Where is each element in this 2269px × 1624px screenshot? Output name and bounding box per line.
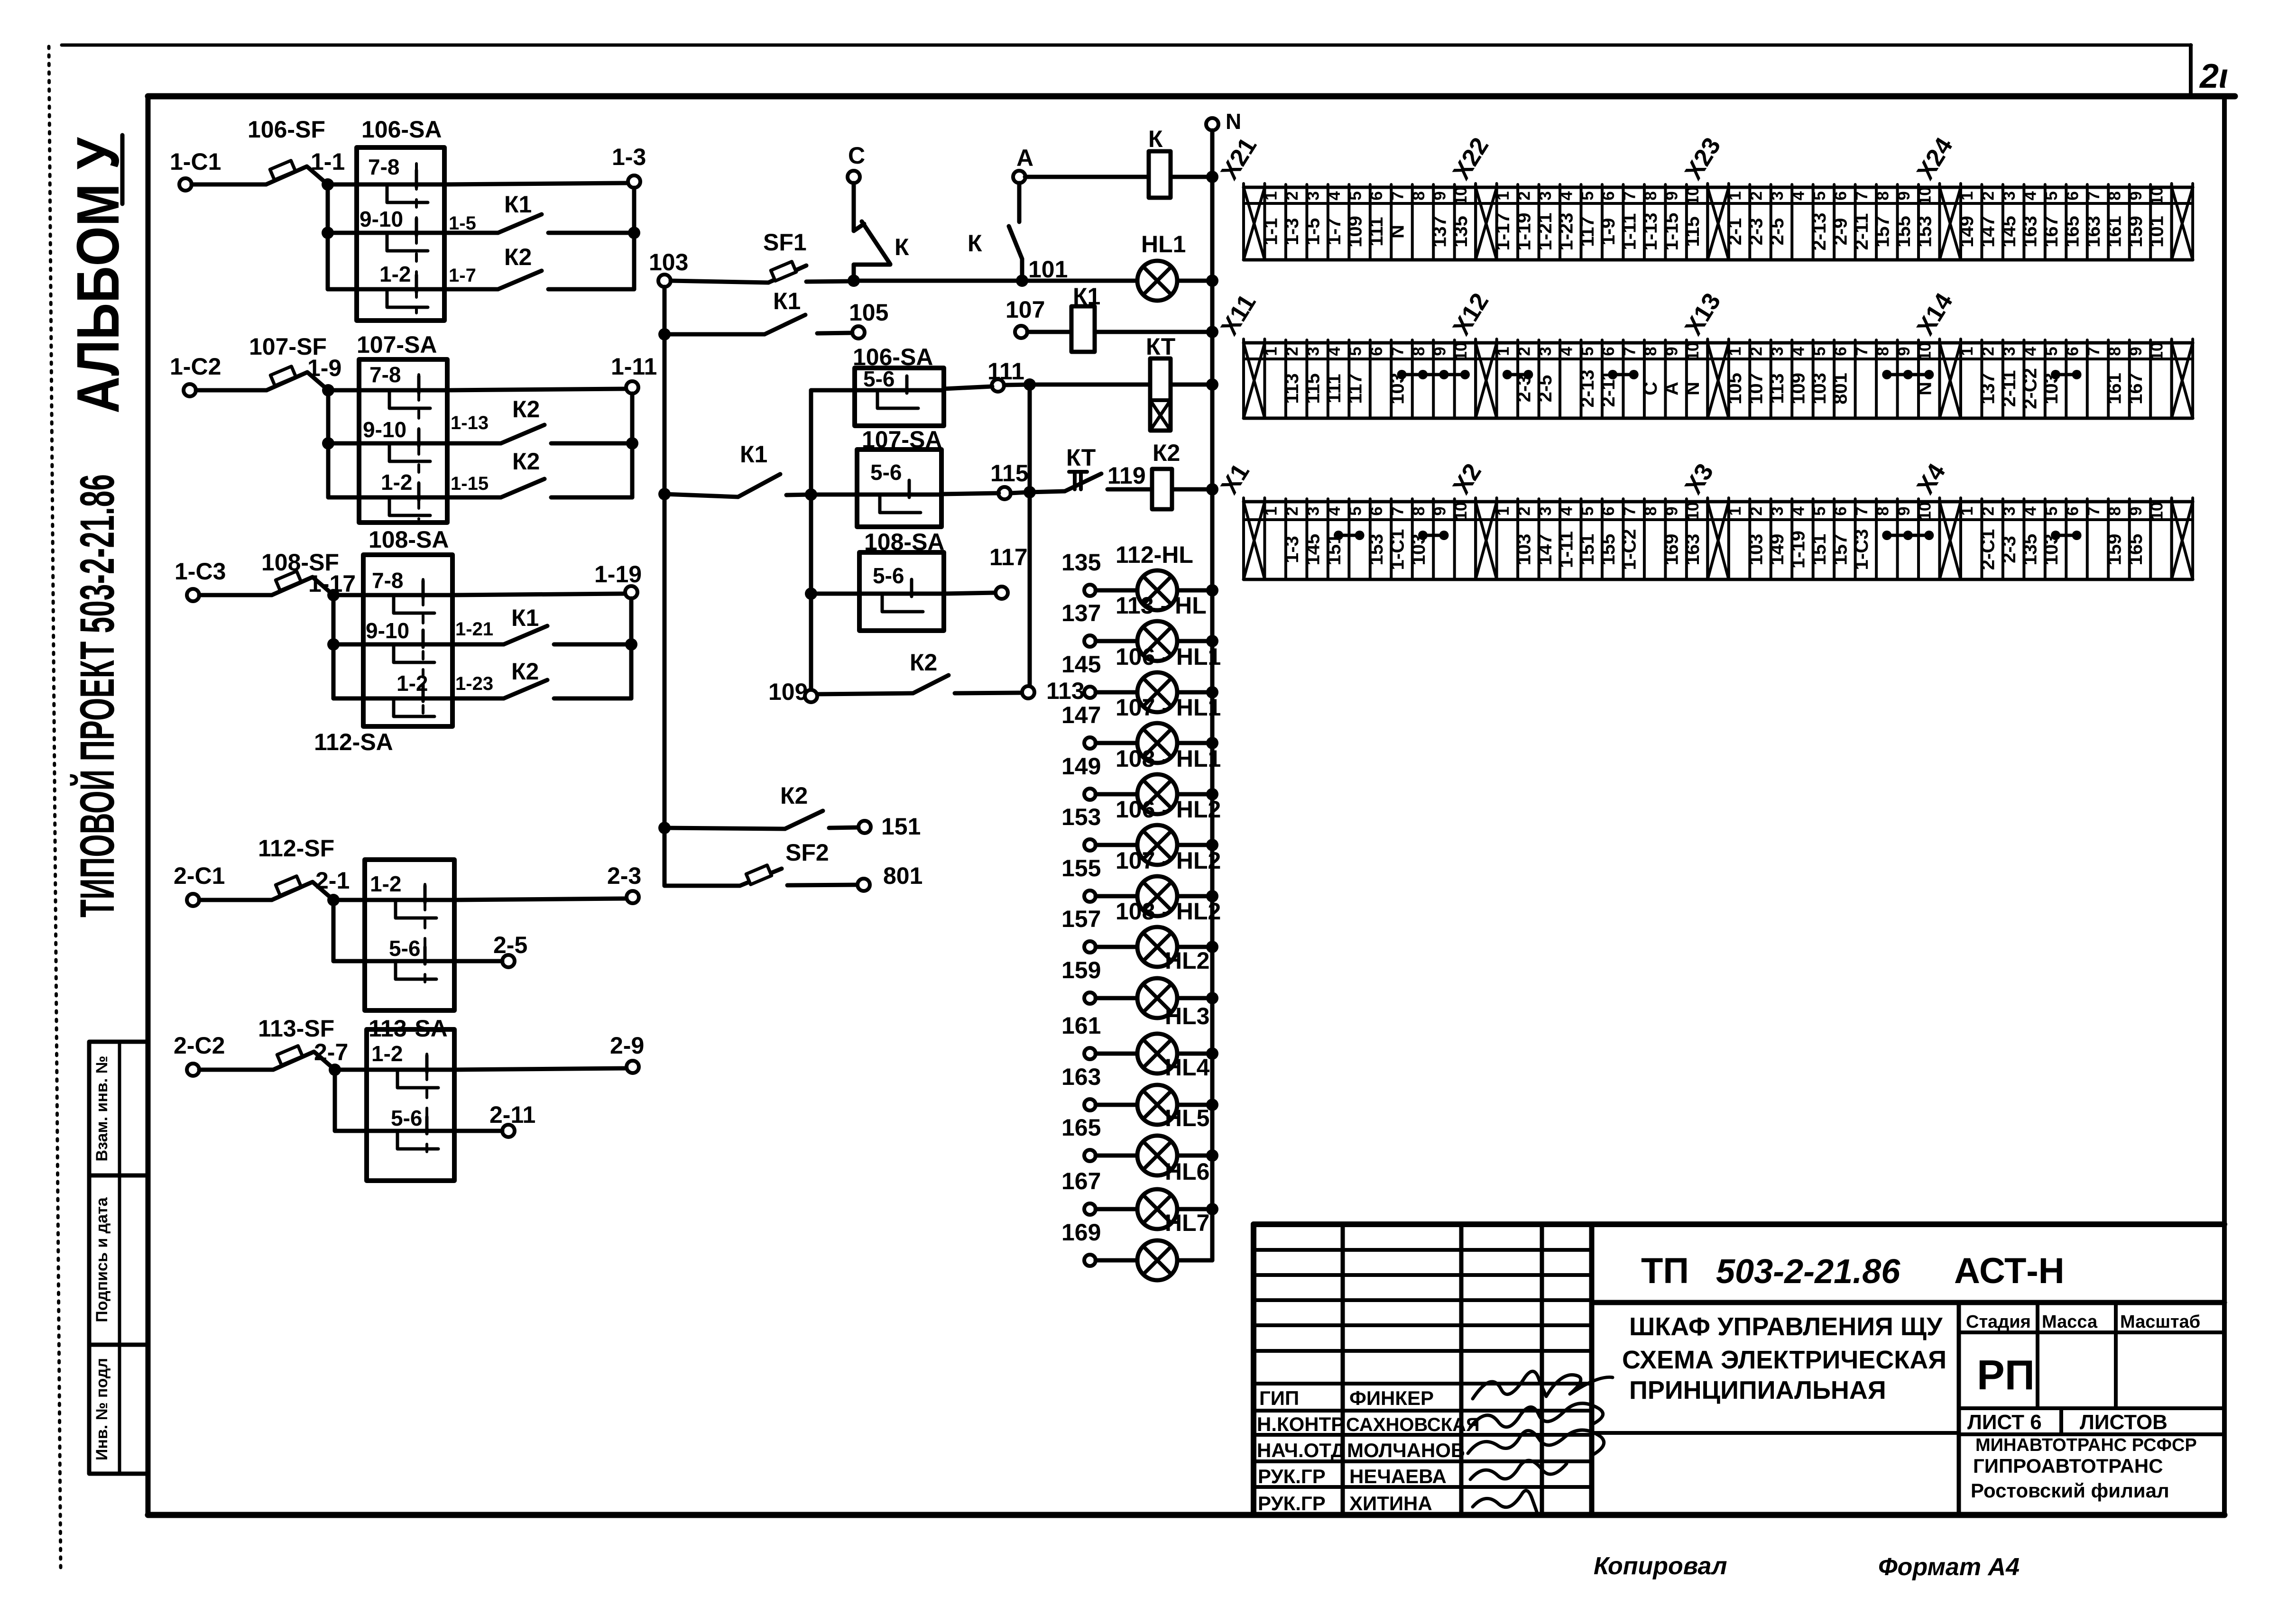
svg-text:Инв. № подл: Инв. № подл bbox=[93, 1358, 111, 1460]
terminal 153 bbox=[1084, 839, 1096, 851]
terminal 1-C3 bbox=[187, 589, 199, 601]
drawing frame bbox=[148, 93, 2235, 100]
lamp 107 - HL2 bbox=[1116, 847, 1221, 874]
svg-text:МОЛЧАНОВ: МОЛЧАНОВ bbox=[1347, 1439, 1465, 1461]
left bus of 113-SA bbox=[333, 1070, 337, 1131]
svg-text:155: 155 bbox=[1893, 216, 1914, 248]
Х1 pin 5 bbox=[1369, 499, 1372, 579]
Х22 pin 8 bbox=[1664, 184, 1667, 260]
svg-text:К2: К2 bbox=[511, 658, 539, 685]
svg-text:HL5: HL5 bbox=[1165, 1105, 1209, 1131]
svg-text:3: 3 bbox=[2000, 506, 2019, 515]
svg-text:167: 167 bbox=[1061, 1168, 1101, 1194]
Х21 pin 7 bbox=[1411, 184, 1414, 260]
svg-text:1-2: 1-2 bbox=[379, 262, 411, 286]
Х2 pin 8 bbox=[1664, 499, 1667, 579]
Х3 pin 2 bbox=[1770, 499, 1772, 579]
svg-text:5: 5 bbox=[1810, 506, 1829, 515]
svg-text:108 - HL1: 108 - HL1 bbox=[1116, 745, 1221, 772]
terminal 161 bbox=[1084, 1048, 1096, 1059]
svg-text:113 - HL: 113 - HL bbox=[1116, 592, 1207, 619]
svg-text:6: 6 bbox=[1367, 191, 1386, 200]
svg-text:7: 7 bbox=[2085, 347, 2103, 356]
wire 111 to KT branch bbox=[1004, 385, 1030, 385]
wire into 108-SA aux bbox=[811, 592, 859, 596]
terminal 115 bbox=[998, 487, 1011, 499]
svg-text:1: 1 bbox=[1958, 347, 1976, 356]
svg-text:Масштаб: Масштаб bbox=[2120, 1312, 2200, 1332]
svg-text:К1: К1 bbox=[504, 191, 532, 218]
wire lamp to N bus bbox=[1177, 1052, 1212, 1056]
svg-text:6: 6 bbox=[1367, 506, 1386, 515]
svg-text:1-11: 1-11 bbox=[1556, 531, 1577, 568]
Х23 pin 1 bbox=[1748, 184, 1751, 260]
svg-text:107: 107 bbox=[1746, 373, 1767, 404]
svg-text:111: 111 bbox=[1324, 374, 1345, 403]
svg-text:SF2: SF2 bbox=[785, 839, 829, 866]
Х14 pin 7 bbox=[2107, 340, 2110, 418]
svg-text:2-9: 2-9 bbox=[1830, 218, 1851, 246]
svg-text:4: 4 bbox=[1557, 191, 1576, 201]
stage value РП bbox=[1977, 1351, 2035, 1398]
Х1 pin 2 bbox=[1305, 499, 1308, 579]
svg-text:К2: К2 bbox=[910, 649, 937, 676]
svg-text:1-19: 1-19 bbox=[1513, 212, 1534, 250]
svg-text:С: С bbox=[848, 142, 865, 169]
svg-text:HL3: HL3 bbox=[1165, 1003, 1209, 1029]
title block staff labels bbox=[1257, 1387, 1480, 1514]
contact 1-2 of 107-SA bbox=[328, 495, 447, 500]
svg-text:1: 1 bbox=[1958, 506, 1976, 515]
svg-text:137: 137 bbox=[1978, 373, 1999, 404]
margin box Взам.инв.№ bbox=[89, 1042, 148, 1175]
Х4 pin 6 bbox=[2086, 499, 2089, 579]
svg-text:4: 4 bbox=[2021, 347, 2040, 356]
linkage dashed line 112-SA bbox=[424, 884, 426, 984]
terminal 155 bbox=[1084, 890, 1096, 902]
svg-text:9: 9 bbox=[1430, 347, 1449, 356]
svg-text:135: 135 bbox=[1450, 216, 1471, 248]
Х3 pin 1 bbox=[1748, 499, 1751, 579]
svg-text:10: 10 bbox=[1684, 502, 1702, 521]
svg-text:2: 2 bbox=[1283, 347, 1301, 356]
terminal block label Х2 bbox=[1448, 459, 1487, 499]
svg-text:4: 4 bbox=[1789, 506, 1808, 516]
svg-text:N: N bbox=[1682, 382, 1703, 395]
svg-text:9-10: 9-10 bbox=[366, 618, 409, 643]
Х3 pin 5 bbox=[1833, 499, 1835, 579]
contact K2 to 151 bbox=[780, 782, 921, 840]
terminal block Х2 crossed cell bbox=[1474, 498, 1477, 579]
svg-text:1-9: 1-9 bbox=[1598, 218, 1619, 246]
svg-text:НЕЧАЕВА: НЕЧАЕВА bbox=[1349, 1465, 1447, 1487]
Х13 pin 3 bbox=[1790, 340, 1793, 418]
terminal block Х14 crossed cell bbox=[1938, 339, 1941, 418]
Х4 pin 1 bbox=[1980, 499, 1983, 579]
aux contact box 107-SA 5-6 bbox=[862, 426, 942, 453]
svg-text:107 - HL1: 107 - HL1 bbox=[1116, 694, 1221, 721]
terminal block label Х12 bbox=[1448, 288, 1494, 340]
svg-text:112-SA: 112-SA bbox=[314, 729, 393, 755]
svg-text:9: 9 bbox=[1895, 347, 1913, 356]
terminal strip X11-X14 closing crossed cell bbox=[2170, 339, 2173, 418]
Х1 pin 9 bbox=[1453, 499, 1456, 579]
svg-text:7: 7 bbox=[1389, 347, 1407, 356]
svg-text:1-2: 1-2 bbox=[381, 470, 412, 495]
svg-text:10: 10 bbox=[1452, 342, 1470, 361]
contact 1-2 of 106-SA bbox=[328, 287, 444, 292]
terminal block Х12 crossed cell bbox=[1474, 339, 1477, 418]
right bus block2 bbox=[630, 394, 635, 497]
Х14 pin 10 bbox=[2170, 340, 2173, 418]
Х11 pin 7 bbox=[1411, 340, 1414, 418]
svg-text:РУК.ГР: РУК.ГР bbox=[1258, 1492, 1326, 1514]
Х11 pin 9 bbox=[1453, 340, 1456, 418]
aux contact box 106-SA 5-6 bbox=[853, 344, 933, 370]
contact K2 1-7 bbox=[449, 244, 532, 286]
svg-text:ФИНКЕР: ФИНКЕР bbox=[1349, 1387, 1434, 1409]
node 2-1 bbox=[327, 894, 340, 906]
svg-text:HL6: HL6 bbox=[1165, 1158, 1209, 1185]
Х23 pin 6 bbox=[1854, 184, 1857, 260]
Х13 pin 7 bbox=[1875, 340, 1878, 418]
svg-text:1: 1 bbox=[1494, 506, 1513, 515]
aux contact box 108-SA 5-6 bbox=[864, 529, 945, 555]
Х3 pin 6 bbox=[1854, 499, 1857, 579]
title block divider under document number bbox=[1592, 1300, 2224, 1305]
right bus block3 bbox=[629, 598, 634, 698]
Х12 pin 9 bbox=[1685, 340, 1688, 418]
svg-text:7: 7 bbox=[2085, 506, 2103, 515]
svg-text:4: 4 bbox=[1325, 506, 1344, 516]
Х22 pin 1 bbox=[1516, 184, 1519, 260]
svg-text:10: 10 bbox=[1452, 187, 1470, 205]
lamp 108 - HL2 bbox=[1116, 898, 1221, 925]
svg-text:113-SF: 113-SF bbox=[258, 1015, 334, 1042]
svg-text:1-11: 1-11 bbox=[611, 353, 657, 380]
svg-text:2: 2 bbox=[1515, 191, 1533, 200]
title block left table rows bbox=[1254, 1248, 1592, 1252]
svg-text:113: 113 bbox=[1046, 678, 1085, 704]
svg-text:HL2: HL2 bbox=[1165, 947, 1209, 974]
contact K1 bypass 105 bbox=[773, 288, 888, 326]
terminal block label Х11 bbox=[1216, 290, 1262, 340]
Х2 pin 4 bbox=[1580, 499, 1583, 579]
svg-text:1-15: 1-15 bbox=[1661, 212, 1682, 250]
svg-text:157: 157 bbox=[1872, 216, 1893, 248]
main line to K contact at A bbox=[854, 279, 1022, 283]
svg-text:А: А bbox=[1661, 382, 1682, 395]
junction on N bus bbox=[1206, 326, 1218, 338]
lamp HL2 bbox=[1165, 947, 1209, 974]
svg-text:3: 3 bbox=[1304, 191, 1323, 200]
svg-text:N: N bbox=[1226, 109, 1241, 134]
junction bbox=[628, 227, 640, 239]
Х21 pin 4 bbox=[1347, 184, 1350, 260]
svg-text:А: А bbox=[1016, 145, 1033, 171]
svg-text:1-3: 1-3 bbox=[612, 144, 646, 170]
Х3 pin 4 bbox=[1812, 499, 1815, 579]
coil KT with clock section bbox=[1146, 333, 1175, 360]
terminal block Х11 crossed cell bbox=[1242, 339, 1245, 418]
terminal 2-9 bbox=[627, 1061, 639, 1073]
svg-text:1-13: 1-13 bbox=[451, 413, 489, 433]
svg-text:6: 6 bbox=[1599, 191, 1618, 200]
svg-text:7: 7 bbox=[1853, 347, 1871, 356]
terminal 109 bbox=[805, 690, 817, 702]
Х12 pin 5 bbox=[1601, 340, 1604, 418]
svg-text:111: 111 bbox=[987, 358, 1024, 385]
svg-text:9: 9 bbox=[2127, 506, 2145, 515]
terminal 135 bbox=[1084, 585, 1096, 596]
svg-text:3: 3 bbox=[1768, 191, 1787, 200]
Х11 pin 1 bbox=[1284, 340, 1287, 418]
Х14 pin 8 bbox=[2128, 340, 2131, 418]
terminal 103 bbox=[658, 275, 671, 287]
svg-text:1: 1 bbox=[1958, 191, 1976, 200]
terminal 1-C1 bbox=[179, 178, 192, 191]
svg-text:СХЕМА ЭЛЕКТРИЧЕСКАЯ: СХЕМА ЭЛЕКТРИЧЕСКАЯ bbox=[1622, 1346, 1946, 1374]
svg-text:МИНАВТОТРАНС РСФСР: МИНАВТОТРАНС РСФСР bbox=[1975, 1435, 2197, 1455]
svg-text:10: 10 bbox=[1916, 502, 1934, 521]
margin box Инв. № подл bbox=[89, 1345, 148, 1474]
breaker 112-SF bbox=[258, 835, 334, 862]
wire lamp to N bus bbox=[1177, 690, 1212, 695]
svg-text:163: 163 bbox=[2020, 216, 2041, 248]
terminal 107 bbox=[1015, 326, 1027, 338]
svg-text:9: 9 bbox=[1663, 191, 1681, 200]
svg-text:Взам. инв. №: Взам. инв. № bbox=[93, 1055, 111, 1161]
svg-text:2-9: 2-9 bbox=[610, 1032, 644, 1059]
Х24 pin 4 bbox=[2044, 184, 2047, 260]
switch block 106-SA bbox=[357, 147, 444, 321]
svg-text:6: 6 bbox=[2064, 191, 2082, 200]
svg-text:137: 137 bbox=[1429, 216, 1450, 248]
breaker 106-SF bbox=[248, 116, 325, 143]
Х21 pin 10 bbox=[1474, 184, 1477, 260]
terminal block Х23 crossed cell bbox=[1706, 184, 1709, 260]
svg-text:РУК.ГР: РУК.ГР bbox=[1258, 1465, 1326, 1487]
svg-text:2-11: 2-11 bbox=[489, 1101, 535, 1128]
svg-text:7: 7 bbox=[1621, 191, 1639, 200]
svg-text:1: 1 bbox=[1262, 506, 1281, 515]
svg-text:5: 5 bbox=[1347, 347, 1365, 356]
label 112-SA bbox=[314, 729, 393, 755]
Х21 pin 5 bbox=[1369, 184, 1372, 260]
svg-text:159: 159 bbox=[2104, 534, 2125, 566]
Х14 pin 5 bbox=[2065, 340, 2067, 418]
svg-text:135: 135 bbox=[2020, 534, 2041, 566]
Х23 pin 2 bbox=[1770, 184, 1772, 260]
contact 5-6 inside 106-SA aux bbox=[855, 388, 944, 393]
svg-text:8: 8 bbox=[1642, 191, 1660, 200]
Х12 pin 2 bbox=[1538, 340, 1540, 418]
Х14 pin 3 bbox=[2022, 340, 2025, 418]
svg-text:7: 7 bbox=[1621, 347, 1639, 356]
breaker 113-SF bbox=[258, 1015, 334, 1042]
switch block 113-SA bbox=[367, 1029, 454, 1181]
SA aux left bus bbox=[809, 390, 813, 690]
svg-text:2-С1: 2-С1 bbox=[174, 862, 225, 889]
wire 106-SA aux to 111 bbox=[944, 386, 992, 389]
svg-text:5-6: 5-6 bbox=[389, 936, 420, 961]
svg-text:159: 159 bbox=[1061, 957, 1101, 983]
svg-text:2: 2 bbox=[1515, 347, 1533, 356]
svg-text:9: 9 bbox=[1895, 506, 1913, 515]
node 2-7 bbox=[329, 1064, 341, 1076]
contact K2 1-15 bbox=[451, 448, 540, 494]
svg-text:151: 151 bbox=[1809, 534, 1830, 566]
svg-text:112-HL: 112-HL bbox=[1116, 541, 1193, 568]
Х23 pin 8 bbox=[1896, 184, 1899, 260]
svg-text:3: 3 bbox=[1536, 506, 1555, 515]
svg-text:103: 103 bbox=[1809, 373, 1830, 404]
svg-text:7: 7 bbox=[1853, 506, 1871, 515]
svg-text:ТП: ТП bbox=[1641, 1251, 1689, 1291]
terminal 169 bbox=[1084, 1255, 1096, 1266]
svg-text:106 - HL2: 106 - HL2 bbox=[1116, 796, 1221, 823]
wire HL1 to N bus bbox=[1177, 279, 1212, 283]
svg-text:1-19: 1-19 bbox=[1788, 531, 1808, 569]
Х11 pin 4 bbox=[1347, 340, 1350, 418]
svg-text:159: 159 bbox=[2125, 216, 2146, 248]
svg-text:1-13: 1-13 bbox=[1640, 212, 1661, 250]
junction on N bus bbox=[1206, 737, 1218, 749]
svg-text:1: 1 bbox=[1726, 191, 1744, 200]
junction on N bus bbox=[1206, 1149, 1218, 1162]
Х11 pin 8 bbox=[1432, 340, 1435, 418]
lamp 113 - HL bbox=[1116, 592, 1207, 619]
contact 9-10 of 108-SA bbox=[333, 642, 452, 647]
wire lamp to N bus bbox=[1177, 945, 1212, 949]
svg-text:112-SF: 112-SF bbox=[258, 835, 334, 862]
svg-text:503-2-21.86: 503-2-21.86 bbox=[1716, 1253, 1900, 1291]
svg-text:7: 7 bbox=[1389, 506, 1407, 515]
Х24 pin 6 bbox=[2086, 184, 2089, 260]
terminal block label Х13 bbox=[1679, 288, 1726, 340]
junction on N bus bbox=[1206, 275, 1218, 287]
svg-text:5: 5 bbox=[2042, 347, 2061, 356]
svg-text:103: 103 bbox=[1746, 534, 1767, 566]
Х13 pin 5 bbox=[1833, 340, 1835, 418]
contact 5-6 inside 107-SA aux bbox=[857, 493, 941, 497]
Х1 jumper 4-5 bbox=[1338, 534, 1359, 537]
svg-text:2: 2 bbox=[1979, 191, 1998, 200]
svg-text:2-11: 2-11 bbox=[1851, 213, 1872, 250]
svg-text:8: 8 bbox=[2106, 506, 2124, 515]
svg-text:5-6: 5-6 bbox=[870, 460, 902, 485]
svg-text:161: 161 bbox=[1061, 1012, 1101, 1039]
svg-text:4: 4 bbox=[1789, 347, 1808, 356]
svg-text:2-1: 2-1 bbox=[315, 867, 350, 894]
Х4 pin 2 bbox=[2002, 499, 2004, 579]
wire bus to 106-SA aux bbox=[811, 388, 855, 393]
svg-text:К: К bbox=[1148, 126, 1163, 152]
lamp HL6 bbox=[1165, 1158, 1209, 1185]
svg-text:1-С2: 1-С2 bbox=[1619, 529, 1640, 570]
svg-text:К2: К2 bbox=[504, 244, 532, 270]
svg-text:К1: К1 bbox=[740, 441, 767, 468]
svg-text:2-3: 2-3 bbox=[1999, 536, 2020, 563]
svg-text:1-2: 1-2 bbox=[371, 1041, 403, 1066]
Х21 pin 3 bbox=[1327, 184, 1329, 260]
svg-text:111: 111 bbox=[1366, 217, 1387, 246]
svg-text:8: 8 bbox=[1410, 506, 1428, 515]
svg-text:6: 6 bbox=[1831, 506, 1850, 515]
svg-text:3: 3 bbox=[1536, 191, 1555, 200]
wire lamp to N bus bbox=[1177, 996, 1212, 1000]
svg-text:5-6: 5-6 bbox=[863, 367, 895, 391]
svg-text:1-23: 1-23 bbox=[1556, 212, 1577, 250]
terminal block label Х24 bbox=[1911, 133, 1958, 184]
Х11 pin 6 bbox=[1390, 340, 1393, 418]
svg-text:119: 119 bbox=[1107, 462, 1146, 489]
organization text bbox=[1971, 1435, 2197, 1502]
Х1 pin 6 bbox=[1390, 499, 1393, 579]
svg-text:5: 5 bbox=[1347, 506, 1365, 515]
svg-text:1-С1: 1-С1 bbox=[1387, 529, 1408, 570]
Х13 pin 8 bbox=[1896, 340, 1899, 418]
svg-text:10: 10 bbox=[1684, 342, 1702, 361]
Х4 pin 5 bbox=[2065, 499, 2067, 579]
junction bbox=[322, 227, 334, 239]
switch block 112-SA box bbox=[365, 860, 454, 1010]
svg-text:106 - HL1: 106 - HL1 bbox=[1116, 643, 1221, 670]
svg-text:2-13: 2-13 bbox=[1577, 369, 1598, 407]
svg-text:1-1: 1-1 bbox=[1261, 218, 1282, 246]
svg-text:6: 6 bbox=[1599, 347, 1618, 356]
svg-text:ПРИНЦИПИАЛЬНАЯ: ПРИНЦИПИАЛЬНАЯ bbox=[1629, 1376, 1886, 1404]
Х21 pin 6 bbox=[1390, 184, 1393, 260]
Х22 pin 10 bbox=[1706, 184, 1709, 260]
coil K1 bbox=[1073, 283, 1100, 310]
Х12 pin 4 bbox=[1580, 340, 1583, 418]
wire lamp to N bus bbox=[1177, 639, 1212, 643]
svg-text:АСТ-Н: АСТ-Н bbox=[1954, 1251, 2065, 1291]
contact K2 1-13 bbox=[451, 396, 540, 433]
svg-text:153: 153 bbox=[1366, 534, 1387, 566]
svg-text:2-5: 2-5 bbox=[1535, 375, 1556, 403]
title block left table columns bbox=[1341, 1224, 1345, 1515]
contact 5-6 inside 108-SA aux bbox=[859, 592, 944, 596]
svg-text:1-С3: 1-С3 bbox=[175, 558, 226, 585]
terminal block Х21 crossed cell bbox=[1242, 184, 1245, 260]
svg-text:2: 2 bbox=[1747, 506, 1766, 515]
left bus of 106-SA bbox=[326, 184, 330, 289]
Х3 pin 9 bbox=[1917, 499, 1920, 579]
Х11 pin 3 bbox=[1327, 340, 1329, 418]
contact 1-2 of 113-SA bbox=[335, 1068, 454, 1072]
svg-text:Копировал: Копировал bbox=[1594, 1552, 1727, 1580]
Х14 pin 6 bbox=[2086, 340, 2089, 418]
junction on N bus bbox=[1206, 635, 1218, 647]
signatures bbox=[1473, 1371, 1613, 1399]
svg-text:7: 7 bbox=[2085, 191, 2103, 200]
svg-text:9: 9 bbox=[2127, 191, 2145, 200]
bottom captions bbox=[1594, 1552, 2020, 1581]
svg-text:8: 8 bbox=[1873, 347, 1892, 356]
Х21 pin 1 bbox=[1284, 184, 1287, 260]
svg-text:1-3: 1-3 bbox=[1282, 536, 1302, 563]
junction on N bus bbox=[1206, 890, 1218, 902]
contact 5-6 of 112-SA bbox=[333, 959, 454, 963]
svg-text:2-11: 2-11 bbox=[1999, 370, 2020, 407]
wire 7-8 row to 1-19 bbox=[452, 594, 625, 595]
coil K2 bbox=[1153, 440, 1180, 466]
Х12 pin 1 bbox=[1516, 340, 1519, 418]
svg-text:10: 10 bbox=[2148, 502, 2166, 521]
contact K2 bypass to 113 bbox=[910, 649, 937, 676]
